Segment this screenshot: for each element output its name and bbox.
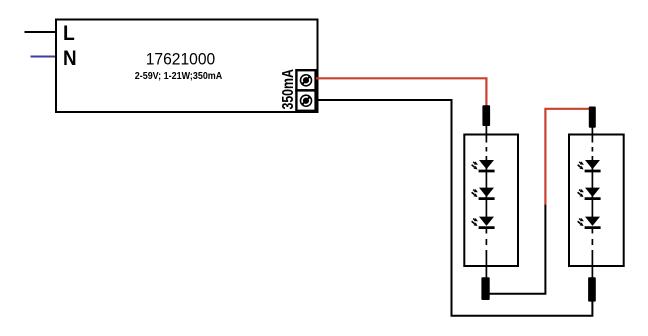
LED D2 [472,188,495,199]
terminal X1 plus screw [296,70,315,90]
ferrule F1 module1 top [482,105,490,126]
LED D1 [472,160,495,171]
LED D5 [578,188,601,199]
ferrule F4 module2 bottom [588,277,596,301]
LED D3 [472,217,495,228]
LED module M2 box [569,135,624,267]
wire series link red part midpoint to module2 top [545,109,589,205]
LED D4 [578,160,601,171]
wire L input [25,31,58,33]
terminal X2 minus screw [296,90,315,110]
LED D6 [578,217,601,228]
wire red driver+ to module1 top [316,78,486,106]
LED driver U1 box 17621000 [56,20,318,113]
ferrule F3 module1 bottom [481,277,489,300]
module1 internal wiring [485,126,487,278]
wire series link black part module1 bottom to midpoint [489,204,545,294]
svg-text:17621000: 17621000 [146,50,216,69]
svg-text:350mA: 350mA [280,69,297,110]
svg-text:L: L [63,21,75,45]
module2 internal wiring [591,128,593,278]
svg-text:2-59V; 1-21W;350mA: 2-59V; 1-21W;350mA [135,71,223,82]
wire black driver- down and along bottom to module2 bottom [318,100,593,316]
svg-text:N: N [63,46,77,70]
ferrule F2 module2 top [589,107,596,128]
wire N input (blue) [31,56,58,58]
LED module M1 box [464,135,518,267]
